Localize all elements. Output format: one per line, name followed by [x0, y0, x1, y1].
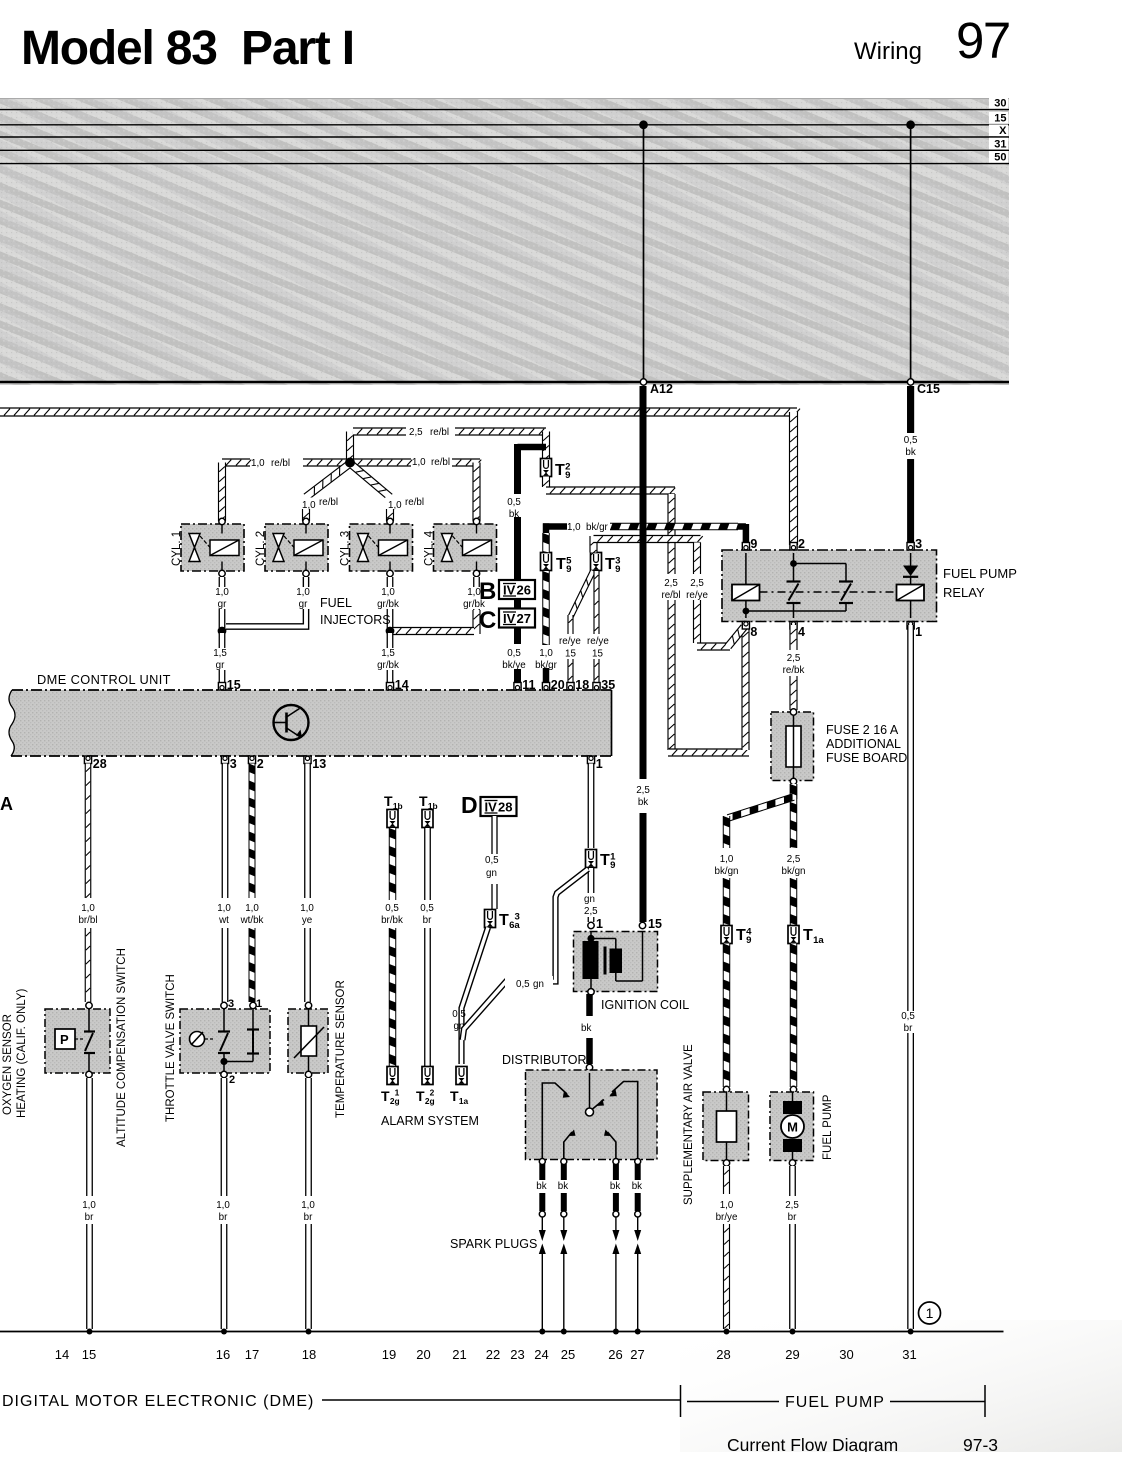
svg-text:gr: gr — [299, 599, 308, 610]
svg-text:0,5: 0,5 — [507, 497, 521, 508]
svg-text:5: 5 — [566, 556, 572, 567]
svg-text:bk/gn: bk/gn — [715, 866, 739, 877]
svg-text:50: 50 — [994, 152, 1006, 164]
svg-text:ALARM SYSTEM: ALARM SYSTEM — [381, 1114, 479, 1128]
svg-text:27: 27 — [517, 611, 531, 626]
svg-text:CYL. 2: CYL. 2 — [255, 531, 267, 566]
svg-text:IV: IV — [485, 800, 498, 815]
svg-text:A: A — [0, 794, 13, 814]
svg-text:T: T — [605, 556, 615, 573]
svg-text:T: T — [555, 462, 565, 479]
svg-text:2: 2 — [257, 757, 264, 771]
svg-text:D: D — [461, 792, 478, 818]
svg-text:26: 26 — [608, 1347, 622, 1362]
svg-text:T: T — [381, 1088, 390, 1104]
svg-text:IV: IV — [503, 611, 516, 626]
svg-text:1: 1 — [926, 1305, 934, 1321]
svg-text:0,5: 0,5 — [420, 903, 434, 914]
svg-text:Part I: Part I — [241, 22, 354, 75]
svg-text:22: 22 — [486, 1347, 500, 1362]
svg-text:ADDITIONAL: ADDITIONAL — [826, 737, 901, 751]
svg-text:A12: A12 — [650, 382, 673, 396]
svg-text:CYL. 1: CYL. 1 — [171, 531, 183, 566]
svg-text:HEATING (CALIF. ONLY): HEATING (CALIF. ONLY) — [16, 989, 28, 1118]
svg-text:br: br — [423, 915, 432, 926]
svg-text:2,5: 2,5 — [785, 1200, 799, 1211]
svg-text:INJECTORS: INJECTORS — [320, 613, 391, 627]
svg-text:1a: 1a — [459, 1096, 469, 1106]
svg-text:1: 1 — [915, 625, 922, 639]
svg-text:br: br — [304, 1212, 313, 1223]
svg-text:DISTRIBUTOR: DISTRIBUTOR — [502, 1053, 587, 1067]
svg-text:2,5: 2,5 — [584, 906, 598, 917]
svg-text:2g: 2g — [425, 1096, 435, 1106]
svg-text:CYL. 3: CYL. 3 — [340, 531, 352, 566]
svg-text:0,5: 0,5 — [516, 979, 530, 990]
svg-text:2,5: 2,5 — [787, 854, 801, 865]
svg-text:OXYGEN SENSOR: OXYGEN SENSOR — [2, 1014, 14, 1115]
svg-text:2g: 2g — [390, 1096, 400, 1106]
svg-text:14: 14 — [55, 1347, 69, 1362]
svg-text:re/bl: re/bl — [430, 427, 449, 438]
svg-text:bk: bk — [536, 1181, 546, 1192]
svg-text:19: 19 — [382, 1347, 396, 1362]
svg-text:Model 83: Model 83 — [21, 22, 217, 75]
svg-text:1: 1 — [256, 998, 262, 1010]
svg-text:1,0: 1,0 — [412, 457, 426, 468]
svg-text:2: 2 — [798, 537, 805, 551]
svg-text:B: B — [479, 578, 496, 605]
svg-text:T: T — [600, 852, 610, 869]
svg-text:25: 25 — [561, 1347, 575, 1362]
svg-text:15: 15 — [592, 649, 603, 660]
svg-text:1,0: 1,0 — [539, 648, 553, 659]
svg-text:15: 15 — [82, 1347, 96, 1362]
svg-text:23: 23 — [510, 1347, 524, 1362]
svg-text:11: 11 — [522, 678, 535, 692]
svg-text:DIGITAL MOTOR ELECTRONIC (DME): DIGITAL MOTOR ELECTRONIC (DME) — [2, 1393, 314, 1410]
svg-text:T: T — [736, 927, 746, 944]
svg-text:P: P — [60, 1032, 69, 1047]
svg-text:3: 3 — [228, 998, 234, 1010]
svg-text:1,0: 1,0 — [567, 522, 581, 533]
svg-text:2,5: 2,5 — [787, 653, 801, 664]
svg-text:1,0: 1,0 — [296, 587, 310, 598]
svg-text:T: T — [499, 912, 509, 929]
svg-text:Current Flow Diagram: Current Flow Diagram — [727, 1435, 898, 1452]
svg-text:1,0: 1,0 — [720, 1200, 734, 1211]
svg-text:1,5: 1,5 — [381, 648, 395, 659]
svg-text:29: 29 — [785, 1347, 799, 1362]
svg-text:1: 1 — [596, 917, 603, 931]
svg-text:2,5: 2,5 — [664, 578, 678, 589]
svg-text:IV: IV — [503, 583, 516, 598]
svg-text:1,0: 1,0 — [81, 903, 95, 914]
svg-text:T: T — [419, 793, 428, 809]
svg-text:IGNITION COIL: IGNITION COIL — [601, 998, 689, 1012]
svg-text:15: 15 — [227, 678, 241, 692]
svg-text:re/bl: re/bl — [431, 457, 450, 468]
svg-text:28: 28 — [716, 1347, 730, 1362]
svg-text:1,0: 1,0 — [215, 587, 229, 598]
svg-text:TEMPERATURE SENSOR: TEMPERATURE SENSOR — [335, 980, 347, 1118]
svg-text:4: 4 — [746, 927, 752, 938]
svg-text:1,0: 1,0 — [217, 903, 231, 914]
svg-text:1,0: 1,0 — [251, 458, 265, 469]
svg-text:1: 1 — [596, 757, 603, 771]
svg-text:C15: C15 — [917, 382, 940, 396]
svg-text:T: T — [803, 927, 813, 944]
svg-text:1: 1 — [395, 1088, 400, 1098]
svg-text:14: 14 — [395, 678, 409, 692]
svg-text:bk/gr: bk/gr — [586, 522, 609, 533]
svg-text:2,5: 2,5 — [636, 785, 650, 796]
svg-text:1,0: 1,0 — [301, 1200, 315, 1211]
svg-text:18: 18 — [575, 678, 589, 692]
svg-text:br/bl: br/bl — [78, 915, 97, 926]
svg-text:bk: bk — [558, 1181, 568, 1192]
svg-text:C: C — [479, 607, 496, 634]
svg-text:re/bl: re/bl — [661, 590, 680, 601]
svg-text:RELAY: RELAY — [943, 585, 985, 600]
svg-text:gn: gn — [533, 979, 544, 990]
svg-text:br: br — [904, 1023, 913, 1034]
svg-text:4: 4 — [798, 625, 805, 639]
svg-text:1,0: 1,0 — [720, 854, 734, 865]
svg-text:27: 27 — [630, 1347, 644, 1362]
svg-text:2: 2 — [430, 1088, 435, 1098]
svg-text:br/bk: br/bk — [381, 915, 403, 926]
svg-text:97-3: 97-3 — [963, 1435, 998, 1452]
svg-text:8: 8 — [750, 625, 757, 639]
svg-text:br: br — [788, 1212, 797, 1223]
svg-text:1a: 1a — [813, 935, 824, 946]
svg-text:13: 13 — [312, 757, 326, 771]
svg-text:M: M — [787, 1120, 798, 1135]
svg-text:31: 31 — [994, 138, 1006, 150]
svg-text:15: 15 — [648, 917, 662, 931]
svg-text:bk: bk — [638, 797, 648, 808]
svg-text:FUEL PUMP: FUEL PUMP — [785, 1394, 885, 1411]
svg-text:bk: bk — [632, 1181, 642, 1192]
svg-text:SPARK PLUGS: SPARK PLUGS — [450, 1237, 537, 1251]
svg-text:35: 35 — [601, 678, 615, 692]
svg-text:br: br — [219, 1212, 228, 1223]
svg-text:bk: bk — [610, 1181, 620, 1192]
svg-text:21: 21 — [452, 1347, 466, 1362]
svg-text:br: br — [85, 1212, 94, 1223]
svg-text:FUSE 2 16 A: FUSE 2 16 A — [826, 723, 899, 737]
svg-text:DME CONTROL UNIT: DME CONTROL UNIT — [37, 672, 171, 687]
svg-text:gn: gn — [486, 868, 497, 879]
svg-text:bk/gn: bk/gn — [782, 866, 806, 877]
svg-text:0,5: 0,5 — [385, 903, 399, 914]
svg-text:1,0: 1,0 — [302, 500, 316, 511]
svg-text:28: 28 — [93, 757, 107, 771]
svg-text:97: 97 — [956, 12, 1010, 69]
svg-text:T: T — [384, 793, 393, 809]
svg-text:15: 15 — [565, 649, 576, 660]
svg-text:THROTTLE VALVE SWITCH: THROTTLE VALVE SWITCH — [165, 974, 177, 1122]
svg-text:re/bl: re/bl — [405, 497, 424, 508]
svg-text:gr: gr — [218, 599, 227, 610]
svg-text:18: 18 — [302, 1347, 316, 1362]
svg-text:re/bl: re/bl — [319, 497, 338, 508]
svg-text:3: 3 — [615, 556, 620, 567]
svg-text:wt: wt — [218, 915, 229, 926]
svg-text:re/ye: re/ye — [587, 636, 609, 647]
svg-text:re/bl: re/bl — [271, 458, 290, 469]
svg-text:26: 26 — [517, 583, 531, 598]
svg-text:1,0: 1,0 — [245, 903, 259, 914]
svg-text:gr/bk: gr/bk — [377, 660, 399, 671]
svg-text:re/ye: re/ye — [686, 590, 708, 601]
svg-text:bk: bk — [581, 1023, 591, 1034]
svg-text:24: 24 — [534, 1347, 548, 1362]
svg-text:1,0: 1,0 — [381, 587, 395, 598]
svg-text:CYL. 4: CYL. 4 — [424, 530, 436, 566]
svg-text:re/bk: re/bk — [783, 665, 805, 676]
svg-text:Wiring: Wiring — [854, 38, 922, 65]
svg-text:28: 28 — [498, 800, 512, 815]
svg-text:17: 17 — [245, 1347, 259, 1362]
svg-text:1,0: 1,0 — [82, 1200, 96, 1211]
svg-text:FUSE BOARD: FUSE BOARD — [826, 751, 907, 765]
svg-text:30: 30 — [839, 1347, 853, 1362]
svg-text:X: X — [999, 125, 1007, 137]
svg-text:3: 3 — [915, 537, 922, 551]
svg-text:20: 20 — [416, 1347, 430, 1362]
svg-text:1: 1 — [610, 852, 616, 863]
svg-text:0,5: 0,5 — [507, 648, 521, 659]
svg-text:2,5: 2,5 — [690, 578, 704, 589]
svg-text:16: 16 — [216, 1347, 230, 1362]
svg-text:31: 31 — [902, 1347, 916, 1362]
svg-text:FUEL PUMP: FUEL PUMP — [943, 566, 1017, 581]
svg-text:gr/bk: gr/bk — [377, 599, 399, 610]
svg-text:9: 9 — [750, 537, 757, 551]
svg-text:br/ye: br/ye — [716, 1212, 738, 1223]
svg-text:15: 15 — [994, 113, 1006, 125]
svg-text:0,5: 0,5 — [452, 1009, 466, 1020]
svg-text:FUEL: FUEL — [320, 596, 352, 610]
svg-text:FUEL PUMP: FUEL PUMP — [822, 1094, 834, 1160]
svg-text:1,5: 1,5 — [213, 648, 227, 659]
svg-text:T: T — [556, 556, 566, 573]
svg-text:ye: ye — [302, 915, 313, 926]
svg-text:0,5: 0,5 — [901, 1011, 915, 1022]
svg-text:1,0: 1,0 — [216, 1200, 230, 1211]
svg-text:3: 3 — [230, 757, 237, 771]
svg-text:2: 2 — [565, 462, 570, 473]
svg-text:gr: gr — [216, 660, 225, 671]
svg-text:T: T — [416, 1088, 425, 1104]
svg-text:re/ye: re/ye — [559, 636, 581, 647]
svg-text:3: 3 — [515, 912, 520, 923]
svg-text:2,5: 2,5 — [409, 427, 423, 438]
svg-text:2: 2 — [229, 1074, 235, 1086]
svg-text:1,0: 1,0 — [388, 500, 402, 511]
svg-text:0,5: 0,5 — [904, 435, 918, 446]
svg-text:SUPPLEMENTARY AIR VALVE: SUPPLEMENTARY AIR VALVE — [683, 1044, 695, 1205]
svg-text:30: 30 — [994, 98, 1006, 110]
svg-text:0,5: 0,5 — [485, 855, 499, 866]
svg-text:20: 20 — [551, 678, 565, 692]
svg-text:wt/bk: wt/bk — [240, 915, 264, 926]
svg-text:ALTITUDE COMPENSATION SWITCH: ALTITUDE COMPENSATION SWITCH — [116, 948, 128, 1147]
svg-text:bk: bk — [905, 447, 915, 458]
svg-text:1,0: 1,0 — [300, 903, 314, 914]
svg-text:gn: gn — [584, 894, 595, 905]
svg-text:T: T — [450, 1088, 459, 1104]
